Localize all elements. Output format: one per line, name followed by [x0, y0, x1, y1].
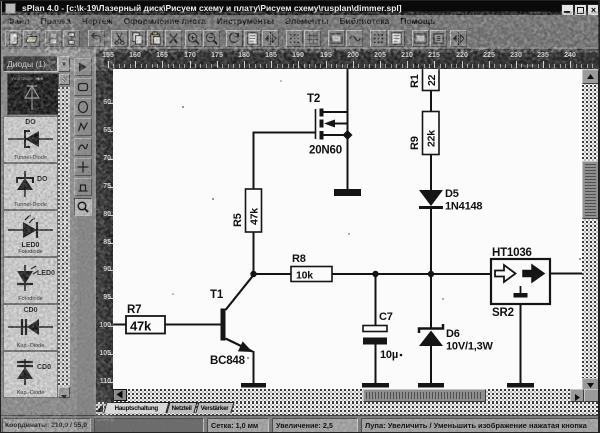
wire node to D6 [430, 274, 432, 328]
node junction R5/R8/T1 [250, 271, 256, 277]
wire C7 branch [375, 274, 377, 326]
svg-text:HT1036: HT1036 [492, 247, 532, 259]
wire R7 to T1 base [165, 324, 221, 326]
wire HT1036 bottom down [520, 304, 522, 383]
horizontal ruler [96, 49, 600, 69]
resistor R9 22k [409, 112, 439, 155]
wire R5 bottom to node [253, 232, 255, 274]
zener diode D6 [419, 324, 494, 353]
sheet tabs [96, 402, 600, 415]
library thumbnail [7, 73, 59, 115]
wire R7 left [113, 324, 126, 326]
svg-text:R5: R5 [232, 213, 244, 227]
ground bar under D6 [418, 383, 444, 388]
wire HT1036 right out [550, 273, 582, 275]
resistor R1 22k (clipped at top) [409, 63, 439, 91]
vertical scrollbar [582, 69, 599, 393]
svg-text:47k: 47k [249, 208, 261, 225]
svg-text:SR2: SR2 [492, 307, 514, 319]
wire T2 source lead [322, 134, 348, 136]
svg-text:R1: R1 [409, 74, 421, 88]
wire R9 to D5 [430, 155, 432, 191]
wire R1 top to R9 [430, 91, 432, 112]
svg-text:20N60: 20N60 [309, 145, 342, 157]
ground bar under T1 [241, 383, 266, 388]
resistor R7 47k [126, 304, 165, 334]
toolbar [2, 28, 600, 50]
svg-text:T2: T2 [307, 93, 320, 105]
svg-text:R9: R9 [409, 136, 421, 150]
svg-text:22: 22 [426, 74, 438, 86]
svg-text:T1: T1 [210, 289, 224, 301]
svg-text:C7: C7 [379, 311, 393, 323]
wire C7 bottom down [375, 344, 377, 384]
library cells [3, 116, 58, 163]
wire R8 to HT1036 [332, 273, 491, 275]
title bar [2, 1, 600, 15]
wire D5 to node [430, 209, 432, 274]
wire node to R8 [254, 273, 292, 275]
wire top feed to T2 drain [347, 69, 349, 135]
svg-text:47k: 47k [130, 319, 152, 334]
svg-text:10k: 10k [296, 270, 313, 282]
library dropdown [3, 56, 58, 72]
svg-text:BC848: BC848 [210, 355, 246, 367]
svg-text:22k: 22k [426, 130, 438, 147]
transistor T2 (MOSFET 20N60) [307, 93, 353, 157]
ground bar under SR2 [507, 383, 534, 388]
resistor R8 10k [291, 253, 332, 282]
wire T2 middle lead [334, 123, 348, 125]
wire T1 emitter down [253, 351, 255, 384]
wire D6 bottom down [430, 346, 432, 384]
canvas [113, 69, 582, 389]
wire gate to R5 [254, 133, 316, 190]
svg-text:D5: D5 [445, 188, 459, 200]
svg-text:D6: D6 [446, 328, 460, 340]
svg-text:R7: R7 [127, 304, 141, 316]
wire T2 drain lead [322, 111, 348, 113]
transistor T1 (BC848) [210, 275, 254, 367]
bottom-left corner [1, 398, 96, 415]
ground bar under C7 [362, 383, 389, 388]
wire T2 source down to ground [347, 124, 349, 190]
diode D5 1N4148 [419, 188, 482, 213]
svg-text:10µ: 10µ [380, 349, 398, 361]
window bottom edge [1, 432, 600, 433]
status bar [1, 415, 600, 433]
node junction D5/D6 [428, 271, 434, 277]
window right edge [598, 1, 600, 433]
svg-text:R8: R8 [292, 253, 306, 265]
tool palette [70, 49, 98, 401]
horizontal scrollbar [96, 389, 584, 402]
svg-text:1N4148: 1N4148 [445, 201, 482, 213]
svg-text:10V/1,3W: 10V/1,3W [446, 341, 494, 353]
node junction C7 [372, 271, 378, 277]
menu bar [2, 15, 600, 29]
resistor R5 47k [232, 189, 262, 232]
ground under T2 [334, 189, 361, 196]
IC HT1036 / SR2 [491, 247, 550, 319]
capacitor C7 10u [363, 311, 402, 361]
vertical ruler [96, 69, 113, 389]
